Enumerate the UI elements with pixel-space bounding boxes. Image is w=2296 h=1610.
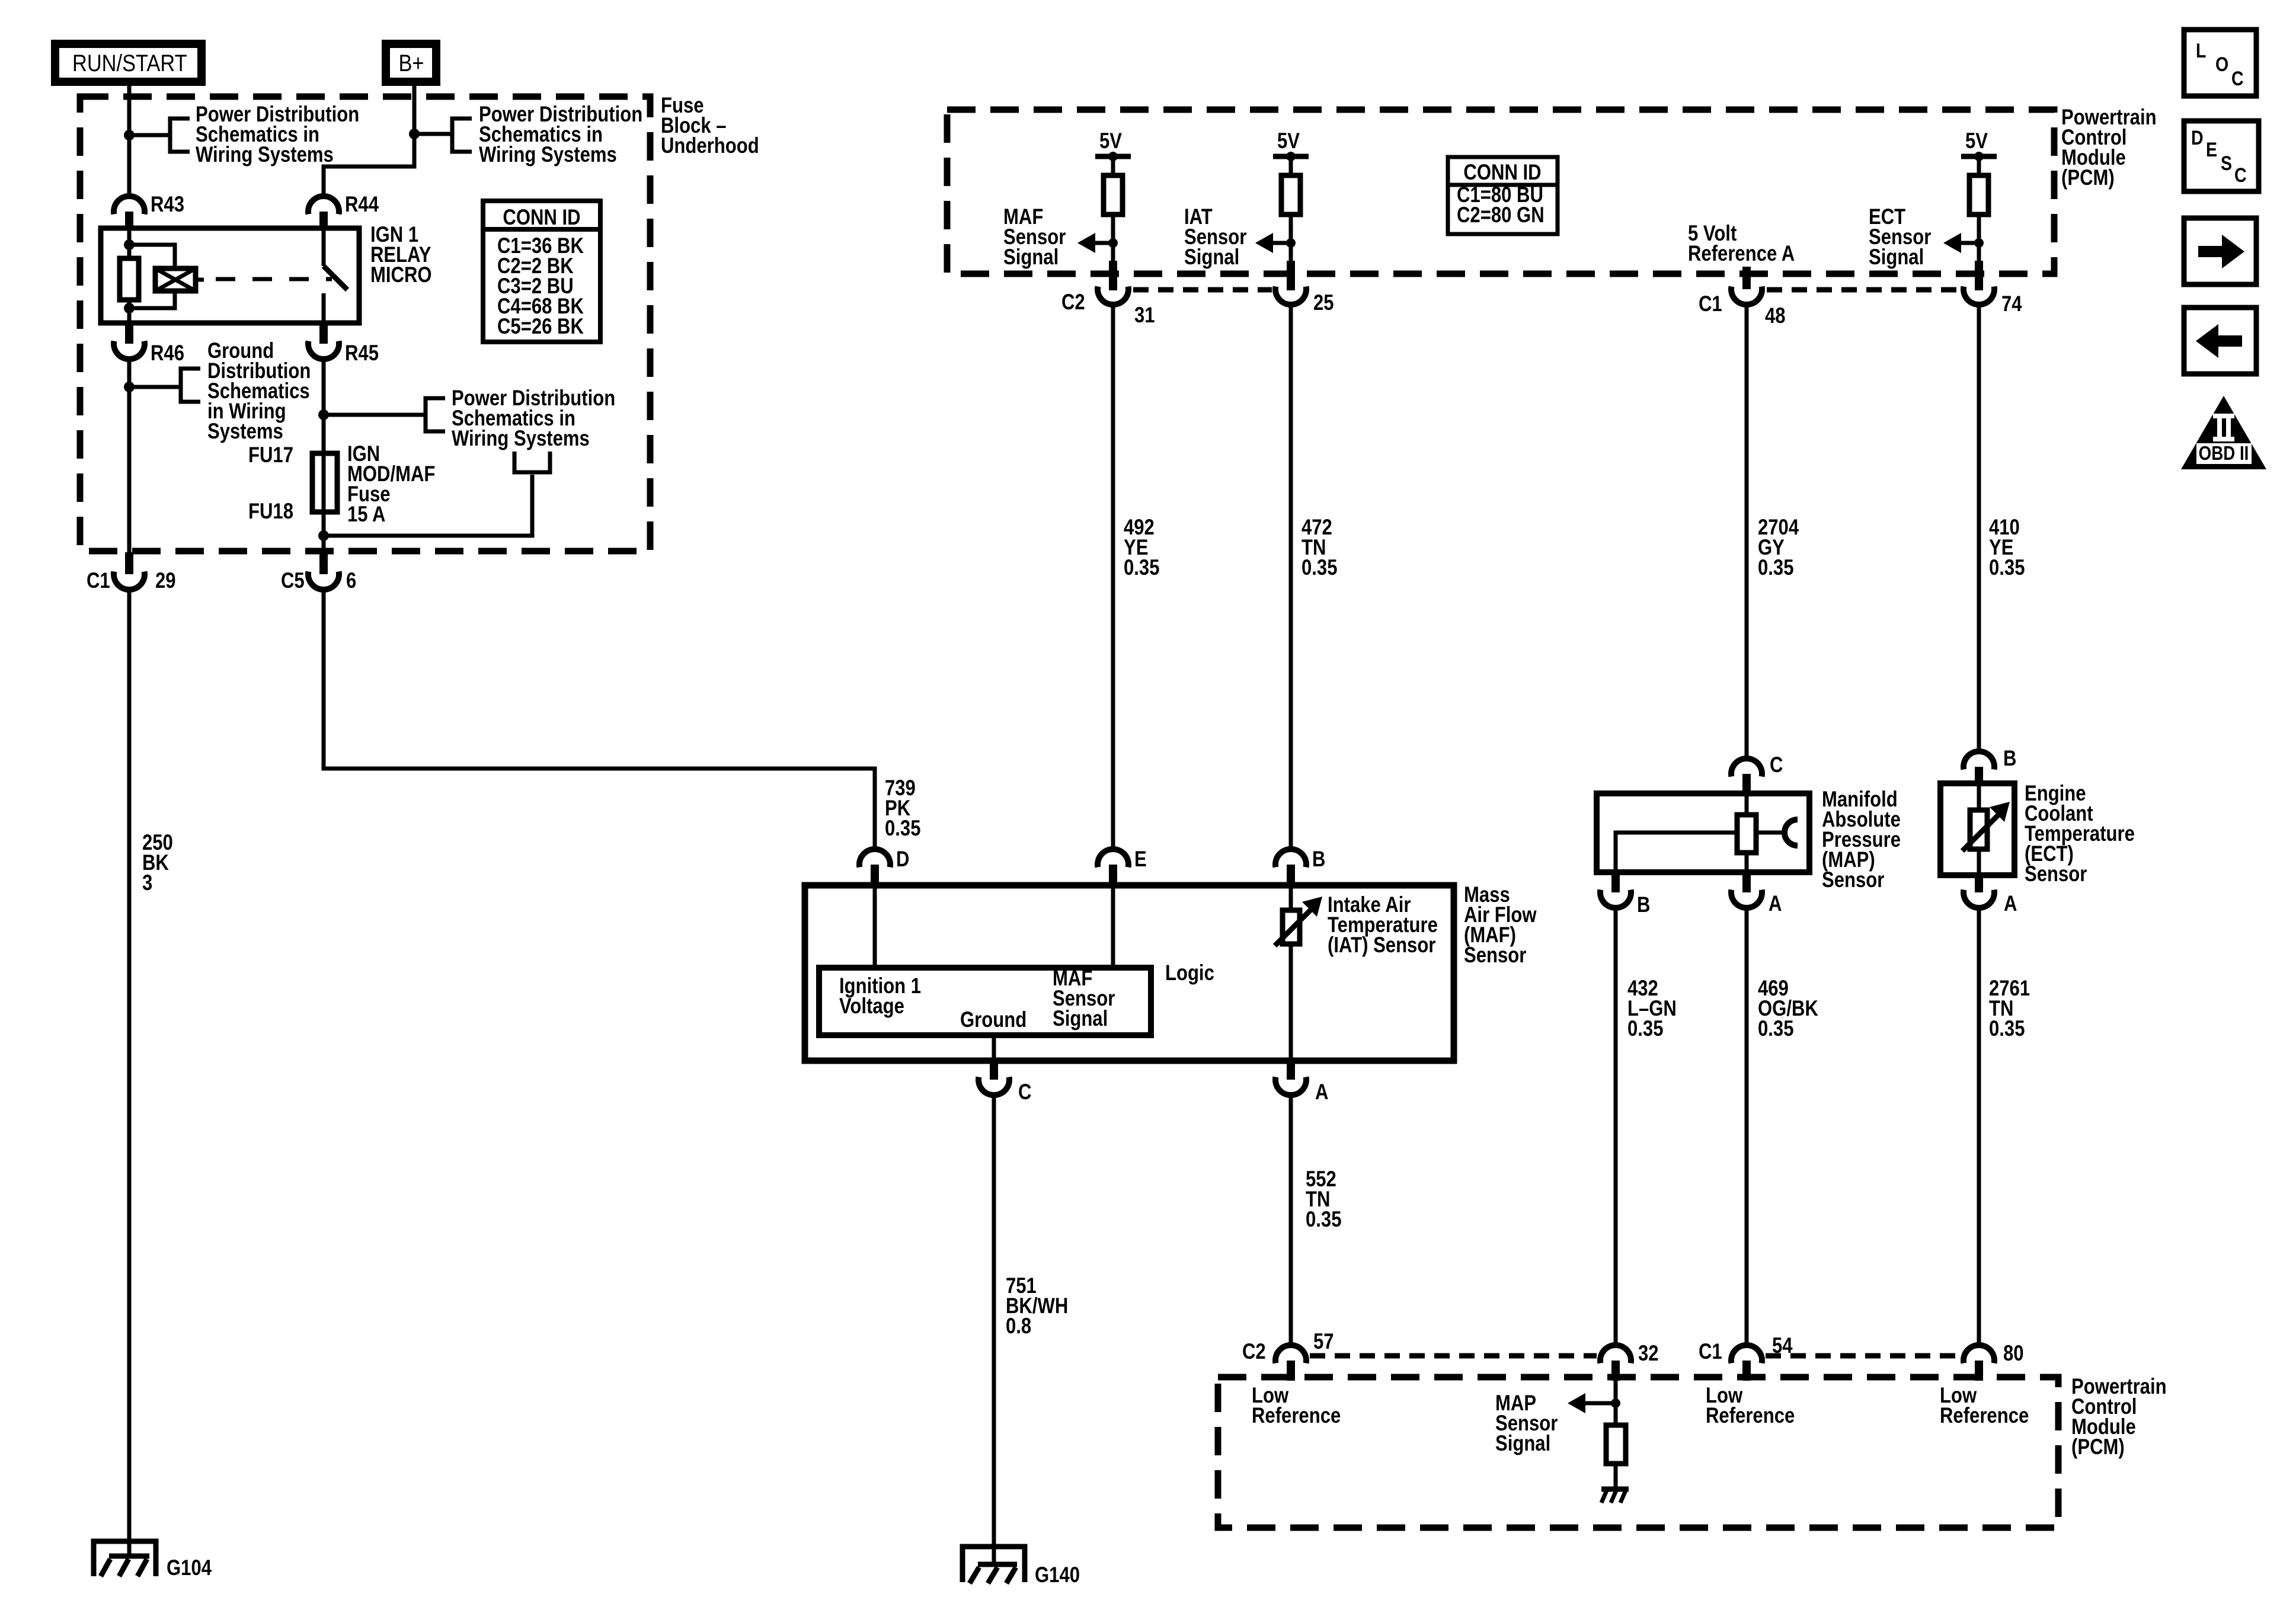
stub 5 volt reference bbox=[1742, 267, 1751, 289]
wire RUN/START down bbox=[127, 82, 132, 197]
svg-text:0.35: 0.35 bbox=[1627, 1017, 1663, 1041]
svg-text:31: 31 bbox=[1134, 303, 1155, 328]
resistor ECT pullup bbox=[1969, 175, 1988, 215]
wire ECT top inside bbox=[1977, 783, 1981, 810]
svg-text:(PCM): (PCM) bbox=[2071, 1435, 2125, 1459]
svg-text:0.35: 0.35 bbox=[1989, 556, 2025, 580]
svg-text:C1: C1 bbox=[1699, 1340, 1722, 1364]
connector C5 6 bbox=[281, 552, 356, 593]
label ECT Sensor Signal bbox=[1869, 205, 1931, 270]
svg-text:5V: 5V bbox=[1965, 129, 1988, 153]
wire branch to bracket 3 bbox=[129, 385, 181, 389]
wire 739 PK C5 to D bbox=[324, 587, 875, 850]
svg-text:OBD II: OBD II bbox=[2199, 443, 2249, 465]
svg-text:Reference A: Reference A bbox=[1688, 242, 1795, 266]
label Ignition 1 Voltage bbox=[839, 974, 921, 1019]
ECT sensor box bbox=[1940, 783, 2014, 875]
svg-text:Ground: Ground bbox=[960, 1008, 1027, 1032]
ground G104 bbox=[94, 1541, 212, 1580]
svg-text:(PCM): (PCM) bbox=[2061, 166, 2115, 190]
connector 74 bbox=[1964, 261, 2022, 316]
wire 552 TN MAF A down bbox=[1289, 1094, 1293, 1347]
svg-text:0.35: 0.35 bbox=[1758, 556, 1793, 580]
svg-text:C1: C1 bbox=[1699, 292, 1722, 316]
svg-text:C2=80 GN: C2=80 GN bbox=[1457, 203, 1544, 228]
terminal B+ bbox=[386, 44, 436, 82]
svg-text:CONN ID: CONN ID bbox=[1463, 161, 1541, 185]
svg-text:0.35: 0.35 bbox=[1124, 556, 1159, 580]
connector R46 bbox=[114, 321, 184, 366]
5V supply MAF bbox=[1095, 129, 1131, 175]
svg-text:Signal: Signal bbox=[1869, 245, 1924, 270]
dashed mechanical linkage bbox=[216, 277, 332, 281]
arrow ECT sensor signal bbox=[1943, 233, 1979, 253]
svg-text:A: A bbox=[1769, 892, 1782, 916]
fuse FU17 FU18 bbox=[248, 443, 337, 524]
label Fuse Block - Underhood bbox=[661, 94, 759, 158]
arrow IAT sensor signal bbox=[1255, 233, 1291, 253]
wire E inside MAF bbox=[1111, 885, 1115, 968]
label MAP Sensor Signal bottom bbox=[1495, 1391, 1558, 1456]
wire thermistor down bbox=[1289, 944, 1293, 1061]
svg-text:57: 57 bbox=[1313, 1330, 1334, 1354]
wire D inside MAF bbox=[873, 885, 877, 968]
svg-text:C5: C5 bbox=[281, 569, 305, 593]
svg-text:Signal: Signal bbox=[1184, 245, 1239, 270]
wire MAP port line bbox=[1756, 831, 1785, 835]
svg-text:C: C bbox=[1770, 753, 1783, 777]
connector B MAP bbox=[1600, 873, 1650, 917]
junction dot ECT signal bbox=[1974, 238, 1984, 248]
junction dot IAT signal bbox=[1286, 238, 1296, 248]
label Powertrain Control Module PCM top bbox=[2061, 105, 2157, 190]
icon OBD II triangle bbox=[2181, 396, 2266, 469]
relay IGN 1 RELAY MICRO box bbox=[101, 228, 359, 323]
connector C2 57 bottom bbox=[1242, 1330, 1334, 1381]
connector R45 bbox=[308, 321, 379, 366]
svg-text:Reference: Reference bbox=[1940, 1404, 2029, 1428]
wire 469 OG/BK down bbox=[1745, 907, 1749, 1347]
5V supply ECT bbox=[1961, 129, 1997, 175]
svg-text:C: C bbox=[2231, 68, 2244, 90]
label 410 YE 0.35 bbox=[1989, 516, 2025, 580]
MAP sensor box bbox=[1597, 793, 1809, 872]
svg-text:B: B bbox=[1312, 847, 1325, 872]
wire MAP internal left bbox=[1616, 833, 1737, 872]
svg-text:Voltage: Voltage bbox=[839, 994, 904, 1019]
wire resistor to chassis ground bbox=[1614, 1464, 1618, 1489]
label Low Reference 3 bbox=[1940, 1384, 2029, 1428]
connector A MAP bbox=[1731, 873, 1782, 916]
wire 751 BK/WH to G140 bbox=[992, 1094, 996, 1564]
wire branch to bracket 2 bbox=[414, 132, 452, 136]
wire 472 TN IAT signal bbox=[1289, 303, 1293, 850]
wire 250 BK 3 down to G104 bbox=[127, 587, 132, 1557]
bracket goes-to symbol bbox=[514, 452, 550, 472]
arrow MAF sensor signal bbox=[1077, 233, 1113, 253]
wire 2704 GY 5V ref bbox=[1745, 303, 1749, 759]
bracket power distribution 1 bbox=[170, 119, 190, 152]
chassis ground internal bbox=[1601, 1489, 1629, 1503]
wire branch to bracket 4 bbox=[324, 413, 426, 417]
terminal RUN/START bbox=[55, 44, 202, 82]
icon right arrow box bbox=[2184, 218, 2256, 284]
port symbol MAP bbox=[1785, 820, 1798, 846]
label 250 BK 3 bbox=[142, 831, 173, 895]
svg-text:G140: G140 bbox=[1035, 1563, 1080, 1587]
svg-text:E: E bbox=[2206, 139, 2217, 161]
label Power Distribution Schematics in Wiring Systems 2 bbox=[479, 103, 642, 167]
junction dot MAF signal bbox=[1108, 238, 1118, 248]
svg-text:0.35: 0.35 bbox=[1306, 1208, 1341, 1232]
svg-text:Sensor: Sensor bbox=[1464, 943, 1526, 968]
wire C inside MAP bbox=[1745, 793, 1749, 815]
wire branch to bracket 1 bbox=[129, 133, 170, 137]
label Engine Coolant Temperature ECT Sensor bbox=[2025, 782, 2135, 886]
wire IAT resistor to border bbox=[1289, 215, 1293, 264]
CONN ID box fuse block bbox=[483, 201, 600, 342]
connector C1 54 bottom bbox=[1699, 1334, 1793, 1381]
svg-text:Sensor: Sensor bbox=[1822, 868, 1884, 892]
MAF sensor outer box bbox=[805, 885, 1454, 1061]
connector C1 48 bbox=[1699, 287, 1786, 328]
svg-text:6: 6 bbox=[346, 569, 356, 593]
label IGN 1 RELAY MICRO bbox=[370, 223, 432, 287]
svg-text:E: E bbox=[1134, 847, 1147, 872]
svg-text:0.35: 0.35 bbox=[885, 817, 920, 841]
svg-text:FU18: FU18 bbox=[248, 500, 293, 524]
label Power Distribution Schematics in Wiring Systems 3 bbox=[452, 386, 615, 451]
connector C2 31 bbox=[1061, 261, 1155, 328]
wire branch to goto bracket bbox=[324, 475, 532, 536]
svg-text:A: A bbox=[2004, 892, 2017, 916]
CONN ID box PCM bbox=[1448, 157, 1558, 234]
svg-text:5V: 5V bbox=[1099, 129, 1122, 153]
label 2761 TN 0.35 bbox=[1989, 977, 2030, 1041]
svg-text:48: 48 bbox=[1765, 304, 1786, 328]
svg-text:0.8: 0.8 bbox=[1006, 1314, 1031, 1339]
label 432 L-GN 0.35 bbox=[1627, 977, 1677, 1041]
fuse block dashed box bbox=[80, 97, 650, 551]
svg-text:0.35: 0.35 bbox=[1989, 1017, 2025, 1041]
svg-text:R45: R45 bbox=[345, 341, 379, 366]
label Manifold Absolute Pressure MAP Sensor bbox=[1822, 788, 1901, 892]
svg-text:Signal: Signal bbox=[1003, 245, 1059, 270]
connector R44 bbox=[308, 193, 379, 230]
svg-text:Signal: Signal bbox=[1053, 1007, 1108, 1031]
svg-text:RUN/START: RUN/START bbox=[72, 50, 187, 76]
resistor MAP pull bbox=[1606, 1425, 1626, 1464]
svg-text:S: S bbox=[2221, 152, 2232, 175]
svg-text:B+: B+ bbox=[398, 50, 424, 76]
label 552 TN 0.35 bbox=[1306, 1167, 1341, 1232]
label Intake Air Temperature IAT Sensor bbox=[1328, 893, 1438, 958]
label MAF Sensor Signal bbox=[1003, 205, 1066, 270]
connector R43 bbox=[114, 193, 184, 230]
connector 32 bottom bbox=[1600, 1342, 1659, 1381]
svg-text:C5=26 BK: C5=26 BK bbox=[497, 315, 584, 339]
wire MAF resistor to border bbox=[1111, 215, 1115, 264]
ground G140 bbox=[962, 1547, 1080, 1587]
icon LOC box bbox=[2184, 30, 2256, 96]
connector C MAP top bbox=[1731, 753, 1783, 792]
svg-text:Wiring Systems: Wiring Systems bbox=[196, 143, 334, 167]
connector E bbox=[1098, 847, 1147, 884]
svg-text:0.35: 0.35 bbox=[1758, 1017, 1793, 1041]
svg-text:C2: C2 bbox=[1061, 290, 1085, 315]
icon DESC box bbox=[2184, 121, 2259, 191]
svg-text:D: D bbox=[896, 847, 909, 872]
PCM top dashed box bbox=[947, 110, 2054, 274]
svg-text:CONN ID: CONN ID bbox=[503, 206, 580, 230]
wire B to thermistor bbox=[1289, 885, 1293, 910]
5V supply IAT bbox=[1273, 129, 1309, 175]
relay solenoid X box bbox=[155, 268, 204, 291]
connector C1 29 bbox=[87, 552, 176, 593]
label IAT Sensor Signal bbox=[1184, 205, 1246, 270]
wire ground pin inside bbox=[992, 1035, 996, 1061]
label Low Reference 2 bbox=[1706, 1384, 1795, 1428]
svg-text:FU17: FU17 bbox=[248, 443, 293, 468]
junction dot fuse branch bbox=[318, 409, 329, 420]
svg-text:C2: C2 bbox=[1242, 1340, 1266, 1364]
bracket power distribution 3 bbox=[426, 398, 445, 431]
svg-text:B: B bbox=[2003, 747, 2016, 771]
svg-text:Wiring Systems: Wiring Systems bbox=[479, 143, 617, 167]
wire 32 to resistor bbox=[1614, 1381, 1618, 1425]
logic inner box bbox=[819, 968, 1151, 1035]
svg-text:Underhood: Underhood bbox=[661, 134, 759, 158]
resistor relay coil bbox=[120, 258, 139, 300]
thermistor ECT bbox=[1962, 802, 2010, 851]
svg-text:Signal: Signal bbox=[1495, 1432, 1550, 1456]
label 751 BK/WH 0.8 bbox=[1006, 1274, 1068, 1339]
label Low Reference 1 bbox=[1252, 1384, 1341, 1428]
bracket ground distribution bbox=[181, 369, 200, 402]
svg-text:R46: R46 bbox=[151, 341, 184, 366]
svg-text:Reference: Reference bbox=[1252, 1404, 1341, 1428]
junction dot MAP signal bottom bbox=[1611, 1398, 1620, 1408]
connector A ECT bbox=[1964, 876, 2017, 916]
svg-text:Systems: Systems bbox=[207, 420, 283, 444]
relay coil top lead bbox=[127, 231, 132, 258]
connector B MAF bbox=[1275, 847, 1325, 884]
label 469 OG/BK 0.35 bbox=[1758, 977, 1818, 1041]
connector B ECT top bbox=[1964, 747, 2016, 785]
wire ECT bottom inside bbox=[1977, 849, 1981, 875]
wire B+ down with jog bbox=[324, 82, 414, 197]
label MAF Sensor Signal inner bbox=[1053, 966, 1115, 1031]
svg-text:B: B bbox=[1637, 893, 1650, 917]
relay switch bbox=[324, 231, 347, 321]
arrow MAP sensor signal bottom bbox=[1568, 1393, 1616, 1413]
dashed connector line 54-80 bbox=[1766, 1353, 1960, 1359]
svg-text:L: L bbox=[2196, 40, 2206, 62]
svg-text:74: 74 bbox=[2001, 292, 2022, 316]
svg-text:Wiring Systems: Wiring Systems bbox=[452, 427, 590, 451]
junction dot coil top bbox=[124, 239, 135, 250]
svg-text:32: 32 bbox=[1638, 1342, 1659, 1366]
svg-text:5V: 5V bbox=[1277, 129, 1300, 153]
connector 25 bbox=[1275, 261, 1334, 315]
dashed connector line 57-32 bbox=[1310, 1353, 1597, 1359]
label 2704 GY 0.35 bbox=[1758, 516, 1799, 580]
label Ground Distribution Schematics in Wiring Systems bbox=[207, 339, 311, 444]
connector C MAF ground bbox=[978, 1061, 1031, 1105]
svg-text:80: 80 bbox=[2003, 1342, 2024, 1366]
wire ECT resistor to border bbox=[1977, 215, 1981, 264]
svg-text:(IAT) Sensor: (IAT) Sensor bbox=[1328, 933, 1435, 958]
svg-text:C: C bbox=[2234, 164, 2247, 187]
svg-text:15 A: 15 A bbox=[347, 502, 385, 527]
label Powertrain Control Module PCM bottom bbox=[2071, 1375, 2167, 1459]
svg-text:Reference: Reference bbox=[1706, 1404, 1795, 1428]
wire 432 L-GN down bbox=[1614, 907, 1618, 1347]
wire R45 down to fuse bbox=[322, 357, 326, 453]
label 5 Volt Reference A bbox=[1688, 222, 1795, 266]
resistor MAF pullup bbox=[1104, 175, 1123, 215]
label 472 TN 0.35 bbox=[1302, 516, 1337, 580]
wire coil parallel loop bbox=[129, 245, 175, 308]
wire below fuse bbox=[322, 512, 326, 557]
svg-text:Logic: Logic bbox=[1165, 961, 1214, 985]
connector A MAF bbox=[1275, 1061, 1328, 1105]
icon left arrow box bbox=[2184, 308, 2256, 374]
junction dot B+ branch bbox=[409, 129, 420, 139]
svg-text:0.35: 0.35 bbox=[1302, 556, 1337, 580]
PCM bottom dashed box bbox=[1218, 1377, 2058, 1528]
svg-text:3: 3 bbox=[142, 871, 152, 895]
wire 2761 TN down bbox=[1977, 907, 1981, 1347]
label Mass Air Flow MAF Sensor bbox=[1464, 883, 1537, 968]
connector D bbox=[859, 847, 909, 884]
svg-text:O: O bbox=[2215, 53, 2228, 76]
svg-text:29: 29 bbox=[155, 569, 176, 593]
bracket power distribution 2 bbox=[452, 119, 472, 152]
label 492 YE 0.35 bbox=[1124, 516, 1159, 580]
wire R46 down to C1 bbox=[127, 357, 132, 557]
resistor MAP bbox=[1737, 815, 1756, 853]
resistor IAT pullup bbox=[1281, 175, 1300, 215]
dashed connector line C2-25 bbox=[1133, 287, 1272, 293]
svg-text:C1: C1 bbox=[87, 569, 110, 593]
junction dot coil bottom bbox=[124, 303, 135, 313]
relay coil bottom lead bbox=[127, 300, 132, 321]
svg-text:MICRO: MICRO bbox=[370, 263, 432, 287]
label 739 PK 0.35 bbox=[885, 776, 920, 841]
svg-text:R43: R43 bbox=[151, 193, 184, 217]
wire 492 YE MAF signal bbox=[1111, 303, 1115, 850]
junction dot ground branch bbox=[124, 382, 135, 392]
label Power Distribution Schematics in Wiring Systems 1 bbox=[196, 103, 359, 167]
junction dot below fuse bbox=[318, 530, 329, 541]
thermistor IAT bbox=[1275, 897, 1322, 946]
dashed connector line C1-74 bbox=[1767, 287, 1960, 293]
svg-text:R44: R44 bbox=[345, 193, 379, 217]
connector 80 bottom bbox=[1964, 1342, 2024, 1381]
svg-text:A: A bbox=[1315, 1080, 1328, 1105]
svg-text:G104: G104 bbox=[167, 1556, 212, 1580]
wire MAP resistor down bbox=[1745, 853, 1749, 872]
label IGN MOD/MAF Fuse 15 A bbox=[347, 442, 435, 527]
svg-text:Sensor: Sensor bbox=[2025, 862, 2087, 886]
svg-text:D: D bbox=[2191, 127, 2204, 149]
svg-text:25: 25 bbox=[1313, 291, 1334, 315]
junction dot run/start branch bbox=[124, 130, 135, 140]
wire 410 YE ECT signal bbox=[1977, 303, 1981, 752]
svg-text:C: C bbox=[1018, 1080, 1031, 1105]
